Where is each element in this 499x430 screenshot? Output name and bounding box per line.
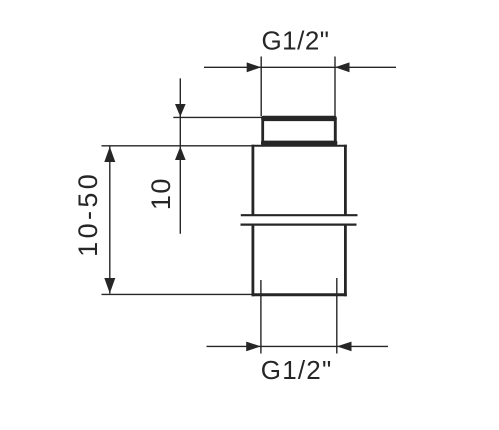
arrow 10-50 down <box>104 278 115 293</box>
extension line shoulder (shared) <box>102 145 253 147</box>
dimension line 10 (vertical) <box>179 78 181 233</box>
break line upper <box>241 214 358 216</box>
dimension line 10-50 (vertical) <box>109 146 111 293</box>
arrow bottom-right <box>337 342 352 352</box>
extension line top-left <box>260 57 262 117</box>
svg-text:G1/2": G1/2" <box>261 355 333 385</box>
collar left side <box>261 118 264 144</box>
extension line bottom-left (body bottom) <box>102 293 252 295</box>
arrow top-left <box>247 62 262 72</box>
extension line bottom G-left <box>260 280 262 354</box>
collar bottom band <box>261 141 337 146</box>
arrow 10 up <box>175 147 186 161</box>
dimension line bottom <box>207 345 389 347</box>
body bottom edge <box>252 293 347 296</box>
svg-text:G1/2": G1/2" <box>261 26 329 56</box>
svg-text:10-50: 10-50 <box>73 171 103 257</box>
collar top band <box>261 116 336 121</box>
body left edge lower <box>251 225 254 297</box>
extension line 10-top (collar top) <box>173 116 263 118</box>
dimension line top <box>204 66 396 68</box>
collar right side <box>334 118 337 144</box>
arrow top-right <box>335 62 350 72</box>
break line lower <box>241 224 357 226</box>
arrow 10 down <box>175 104 186 117</box>
extension line top-right <box>334 57 336 117</box>
body top edge <box>252 145 347 147</box>
extension line bottom G-right <box>336 278 338 354</box>
arrow bottom-left <box>246 342 261 352</box>
arrow 10-50 up <box>104 147 115 162</box>
body left edge upper <box>251 145 254 216</box>
svg-text:10: 10 <box>146 177 176 210</box>
body right edge upper <box>344 145 347 216</box>
body right edge lower <box>344 225 347 297</box>
